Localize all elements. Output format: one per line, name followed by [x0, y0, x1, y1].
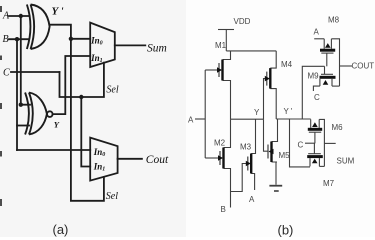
wire M9 right	[332, 85, 340, 87]
wire M2 gate	[205, 157, 220, 159]
wire M5 source to ground	[272, 162, 278, 185]
wire Y' branch to mux1 In0	[71, 38, 90, 40]
wire VDD stem	[225, 30, 227, 51]
wire C input	[11, 71, 60, 73]
svg-text:M5: M5	[279, 151, 291, 160]
node Y' junction dot	[69, 37, 73, 41]
svg-text:Y: Y	[54, 120, 60, 130]
transistor M4	[265, 68, 271, 89]
wire M2 drain to Y	[224, 119, 231, 147]
transistor M5	[268, 142, 274, 163]
wire A input	[9, 15, 29, 17]
svg-text:A: A	[249, 195, 255, 204]
wire node Y' horizontal	[276, 118, 311, 120]
wire Y' down to M7	[290, 119, 311, 167]
wire A gate bus vertical	[204, 70, 206, 158]
svg-text:Y ʹ: Y ʹ	[52, 6, 64, 18]
svg-text:COUT: COUT	[352, 62, 375, 71]
wire M5 drain to Y'	[272, 119, 278, 142]
svg-text:M2: M2	[214, 139, 226, 148]
wire Y to M5 gate	[264, 119, 269, 151]
node C-Sel junction dot	[79, 95, 83, 99]
svg-text:Sel: Sel	[106, 191, 118, 202]
wire node Y horizontal	[231, 118, 264, 120]
svg-text:M3: M3	[240, 143, 252, 152]
wire B input	[9, 38, 29, 40]
svg-text:(a): (a)	[53, 222, 69, 237]
mux U2 (Cout)	[90, 138, 117, 181]
wire C branch to mux2 In1	[81, 97, 90, 167]
svg-text:A: A	[314, 28, 320, 37]
transistor M6 (horizontal)	[308, 119, 322, 143]
wire M1 source to rail	[223, 51, 231, 60]
wire M3 source to A	[251, 174, 254, 191]
transistor M9 (horizontal)	[320, 66, 336, 86]
wire M3 drain to Y	[251, 119, 255, 153]
node A-XNOR junction dot	[19, 103, 23, 107]
wire C line mid	[305, 142, 315, 144]
wire Cout output	[118, 158, 142, 160]
svg-text:Sum: Sum	[147, 42, 167, 54]
wire M1 gate	[205, 69, 219, 71]
transistor M3	[246, 154, 251, 174]
svg-text:A: A	[188, 116, 194, 125]
wire A vertical drop	[21, 16, 30, 105]
transistor M7 (horizontal)	[307, 143, 323, 166]
transistor M8 (horizontal)	[320, 39, 335, 67]
node B junction dot	[15, 37, 19, 41]
svg-text:Y: Y	[254, 108, 260, 117]
svg-text:B: B	[221, 205, 226, 214]
svg-text:M4: M4	[281, 60, 293, 69]
wire M7 right	[319, 165, 324, 167]
VDD tick	[218, 29, 234, 31]
transistor M2	[218, 148, 224, 169]
wire M8 right to COUT bus	[331, 39, 339, 86]
wire B to mux2 In0	[17, 149, 90, 151]
wire M9 left to C	[313, 86, 320, 91]
wire B vertical drop	[16, 39, 18, 150]
svg-text:C: C	[314, 93, 320, 102]
wire M4 source to rail	[270, 51, 276, 68]
wire M2 source down to B	[224, 169, 231, 208]
scan specks left edge	[0, 6, 2, 206]
wire M4 gate from Y	[264, 79, 268, 120]
svg-text:SUM: SUM	[337, 157, 355, 166]
svg-text:Cout: Cout	[146, 154, 169, 166]
svg-text:B: B	[3, 34, 9, 45]
svg-text:(b): (b)	[278, 223, 294, 238]
wire SUM tap	[324, 142, 335, 144]
wire M4 drain to Y'	[270, 89, 276, 119]
wire Y output to mux1 In1	[53, 56, 91, 114]
wire Sum output	[115, 44, 146, 46]
svg-text:M6: M6	[332, 123, 344, 132]
wire Y' up to pass-gate net	[302, 66, 324, 119]
wire B to M3 gate zigzag	[231, 164, 249, 192]
svg-text:C: C	[3, 68, 10, 79]
wire C to mux1 Sel	[60, 63, 104, 97]
svg-text:M9: M9	[308, 72, 320, 81]
svg-text:Y ': Y '	[284, 107, 293, 116]
transistor M1	[217, 60, 223, 81]
svg-text:VDD: VDD	[234, 17, 251, 26]
wire M6 right / SUM bus	[319, 119, 324, 166]
wire top rail	[226, 50, 276, 52]
svg-text:C: C	[298, 141, 304, 150]
XOR gate (A xor B = Y')	[27, 5, 50, 50]
wire COUT tap	[340, 65, 353, 67]
ground symbol	[269, 186, 282, 191]
wire M1 drain to Y	[223, 81, 231, 120]
wire A input left	[195, 118, 205, 120]
svg-text:M7: M7	[323, 179, 335, 188]
svg-text:M1: M1	[215, 41, 227, 50]
scan background tint (a)	[0, 0, 186, 237]
wire Y' output to mux1 In0 and down	[49, 25, 104, 201]
XNOR gate (A xnor B = Y)	[25, 93, 52, 135]
svg-text:Sel: Sel	[106, 85, 118, 96]
svg-text:M8: M8	[328, 16, 340, 25]
mux U1 (Sum)	[90, 23, 115, 67]
svg-text:A: A	[2, 11, 10, 22]
node A junction dot	[19, 14, 23, 18]
wire XNOR input 2	[17, 125, 29, 127]
wire A to M8	[314, 38, 324, 40]
